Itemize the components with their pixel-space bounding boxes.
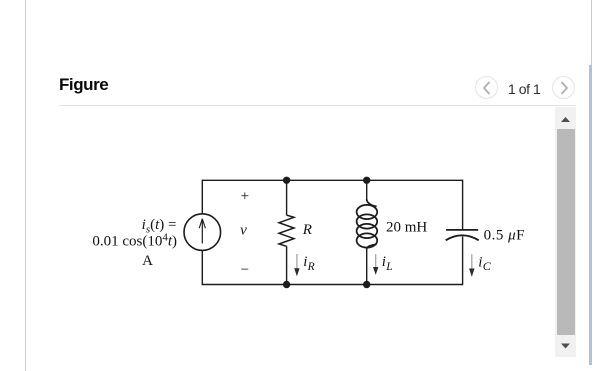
inductor L coil: [367, 199, 377, 206]
capacitor C top plate: [446, 229, 478, 231]
wire: right branch upper segment (to capacitor): [462, 180, 464, 230]
junction node bottom-left (resistor bottom): [283, 281, 290, 288]
scrollbar down arrow: [555, 338, 576, 357]
wire: inductor branch lower: [366, 249, 368, 285]
current source IS: [184, 214, 221, 251]
svg-text:L: L: [385, 261, 392, 273]
left page border line: [25, 0, 26, 371]
svg-text:20 mH: 20 mH: [386, 219, 427, 235]
svg-text:i: i: [478, 254, 482, 270]
junction node top-right (inductor top): [363, 177, 370, 184]
svg-text:0.5 μF: 0.5 μF: [484, 227, 525, 243]
svg-text:R: R: [307, 261, 315, 273]
wire: resistor branch lower: [286, 246, 288, 285]
junction node bottom-right (inductor bottom): [363, 281, 370, 288]
scrollbar thumb: [557, 129, 575, 335]
svg-text:−: −: [241, 262, 249, 278]
divider under heading: [59, 105, 576, 106]
wire: top rail: [202, 179, 462, 181]
right blue scrollbar thumb: [589, 65, 592, 365]
svg-text:+: +: [241, 188, 249, 204]
svg-text:0.01 cos(104t): 0.01 cos(104t): [92, 232, 177, 250]
current arrow iL: [375, 254, 377, 269]
resistor R: [279, 215, 294, 246]
wire: left branch lower segment: [201, 250, 203, 285]
right thin blue line: [591, 0, 592, 65]
current arrow iC: [471, 254, 473, 270]
current arrow iR: [296, 254, 298, 271]
capacitor C bottom curved plate: [446, 235, 479, 240]
junction node top-left (resistor top): [283, 177, 290, 184]
svg-text:C: C: [483, 259, 492, 273]
wire: bottom rail: [202, 284, 462, 286]
wire: resistor branch upper: [286, 180, 288, 216]
scrollbar track: [555, 107, 576, 357]
scrollbar up arrow: [555, 107, 576, 132]
svg-text:R: R: [302, 222, 312, 238]
svg-text:v: v: [240, 222, 247, 238]
svg-text:A: A: [142, 253, 153, 269]
wire: left branch upper segment: [201, 180, 203, 215]
next chevron: [552, 76, 576, 100]
prev chevron: [475, 76, 499, 100]
pagination prev button: [475, 76, 498, 99]
wire: inductor branch upper: [366, 180, 368, 200]
pagination next button: [552, 76, 575, 99]
pagination label 1 of 1: [508, 83, 540, 96]
wire: right branch lower segment (from capacitor): [462, 237, 464, 286]
Figure heading: [59, 77, 108, 92]
